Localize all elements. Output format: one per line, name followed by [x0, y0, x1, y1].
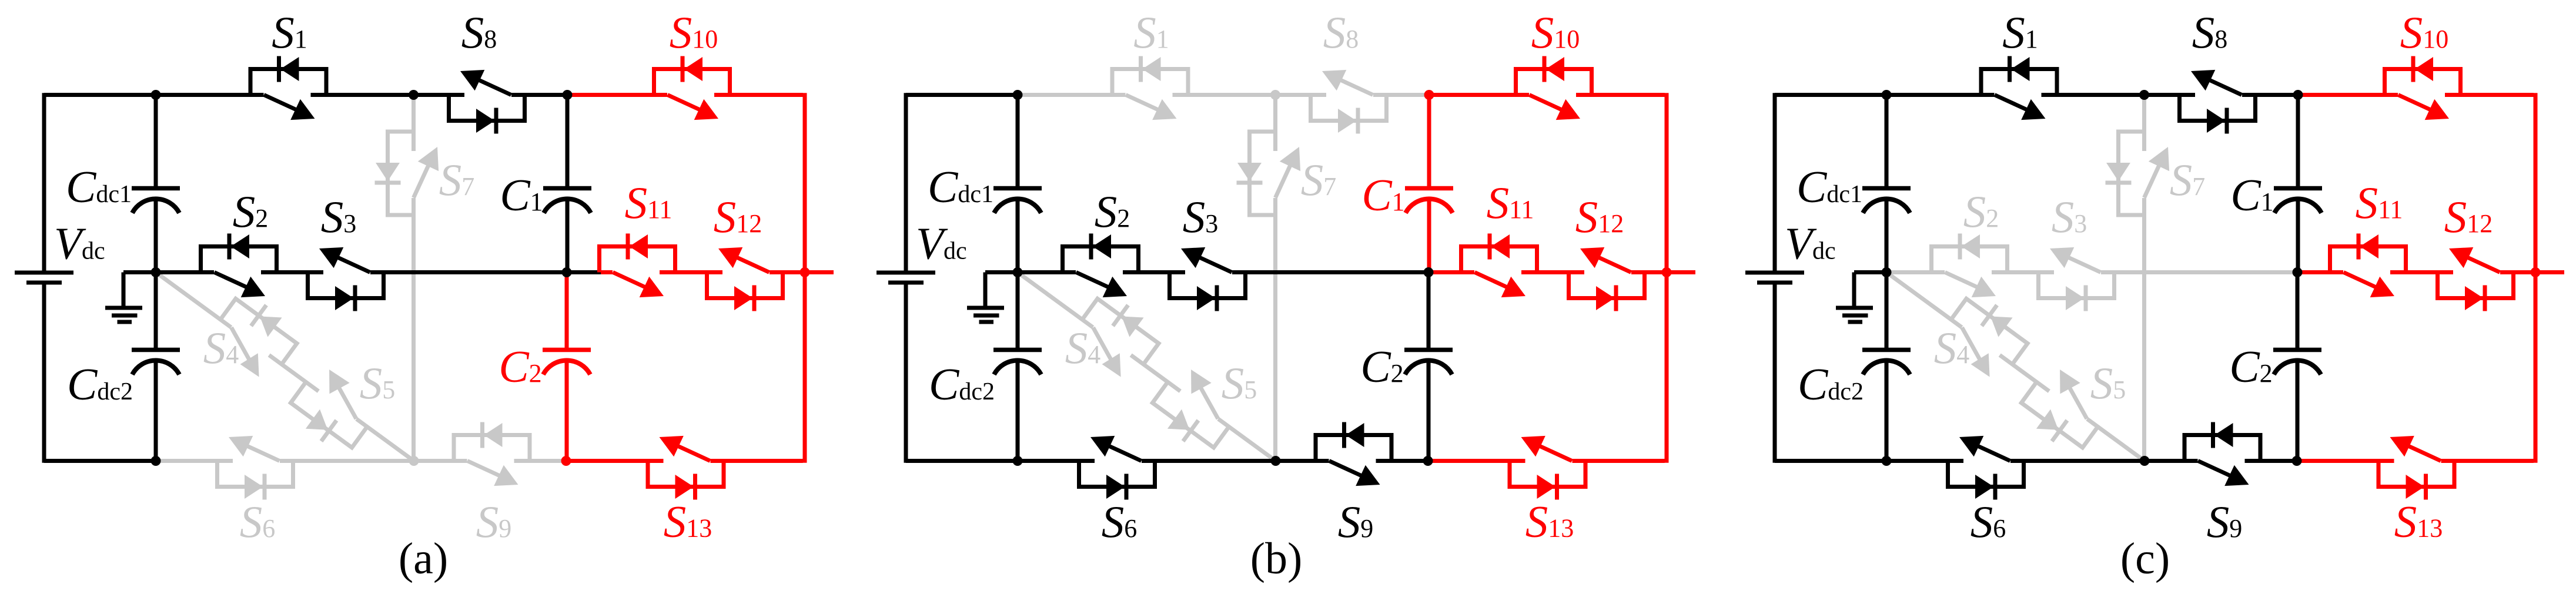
- wire left rail upper: [42, 93, 46, 271]
- switch S8: [1311, 70, 1387, 134]
- ground symbol: [122, 273, 126, 307]
- svg-text:S11: S11: [625, 177, 673, 228]
- svg-text:C1: C1: [500, 170, 543, 220]
- voltage source Vdc battery: [876, 271, 935, 275]
- wire C1 column: [566, 95, 570, 189]
- node top rail / Cdc1 junction: [151, 90, 161, 100]
- switch S13: [2378, 436, 2454, 500]
- switch S6: [1948, 436, 2024, 500]
- switch S2: [1063, 234, 1139, 298]
- svg-text:S8: S8: [1323, 7, 1359, 58]
- ground symbol: [1852, 273, 1856, 307]
- wire bottom rail left: [906, 459, 1018, 463]
- svg-text:S12: S12: [2444, 192, 2493, 242]
- svg-text:S11: S11: [2356, 177, 2403, 228]
- svg-text:C1: C1: [1361, 170, 1404, 220]
- switch S10: [654, 56, 730, 120]
- wire output stub: [2535, 270, 2564, 274]
- capacitor Cdc1: [993, 186, 1042, 191]
- switch S1: [1112, 56, 1188, 120]
- wire mid rail stub right of C node: [2298, 270, 2331, 274]
- switch S12: [1569, 247, 1645, 311]
- svg-text:S11: S11: [1487, 177, 1534, 228]
- svg-text:(a): (a): [399, 534, 448, 583]
- svg-text:S1: S1: [1133, 7, 1169, 58]
- svg-text:S8: S8: [2192, 7, 2228, 58]
- switch S10: [2385, 56, 2461, 120]
- switch S3: [2039, 247, 2115, 311]
- wire Cdc column: [154, 95, 158, 189]
- switch S6: [1079, 436, 1155, 500]
- svg-text:S9: S9: [1338, 496, 1374, 547]
- wire bottom rail S6 section: [156, 459, 414, 463]
- capacitor C1: [1405, 186, 1453, 191]
- wire mid rail S2-S3 section: [156, 270, 567, 274]
- wire top rail left: [44, 93, 156, 97]
- node bottom rail / C2 junction: [2292, 456, 2302, 466]
- ground symbol: [983, 273, 988, 307]
- node top rail / C1 junction: [1424, 90, 1434, 100]
- switch S3: [1170, 247, 1246, 311]
- wire top rail S1-S8 section: [156, 93, 567, 97]
- switch S8: [2180, 70, 2256, 134]
- switch S6: [218, 436, 293, 500]
- node top rail / S7 junction: [409, 90, 419, 100]
- switch S1: [1981, 56, 2057, 120]
- node top rail / S7 junction: [1270, 90, 1280, 100]
- switch S4: [1073, 288, 1166, 377]
- node top rail / Cdc1 junction: [1882, 90, 1892, 100]
- svg-text:S13: S13: [664, 496, 712, 547]
- wire left rail upper: [904, 93, 908, 271]
- svg-text:S7: S7: [1301, 155, 1337, 205]
- wire C2 column: [1427, 273, 1431, 350]
- svg-text:C2: C2: [499, 341, 541, 392]
- node top rail / S7 junction: [2139, 90, 2149, 100]
- wire mid rail ground stub: [1854, 270, 1886, 274]
- wire mid rail stub right of C node: [1429, 270, 1463, 274]
- wire Cdc column: [1885, 95, 1889, 189]
- svg-text:Cdc1: Cdc1: [66, 162, 132, 212]
- switch S9: [1316, 422, 1391, 486]
- wire mid rail ground stub: [123, 270, 156, 274]
- wire output stub: [1667, 270, 1695, 274]
- wire bottom rail S13 section: [566, 459, 803, 463]
- wire mid rail stub right of C node: [567, 270, 601, 274]
- wire left rail upper: [1773, 93, 1777, 271]
- switch S1: [250, 56, 326, 120]
- svg-text:Vdc: Vdc: [916, 219, 967, 269]
- node top rail / Cdc1 junction: [1013, 90, 1023, 100]
- wire mid rail S2-S3 section: [1018, 270, 1429, 274]
- svg-text:C1: C1: [2230, 170, 2273, 220]
- node output terminal: [1662, 267, 1672, 277]
- wire C1 column: [1427, 95, 1431, 189]
- svg-text:S8: S8: [461, 7, 497, 58]
- svg-text:S5: S5: [1222, 358, 1257, 408]
- switch S4 blade arrowhead: [1102, 353, 1121, 377]
- svg-text:(b): (b): [1250, 534, 1303, 583]
- wire output stub: [805, 270, 834, 274]
- svg-text:S12: S12: [714, 192, 762, 242]
- wire bottom rail S9 section: [1276, 459, 1428, 463]
- capacitor Cdc1: [132, 186, 180, 191]
- switch S5: [1145, 362, 1243, 458]
- node bottom rail / diagonal-S7 junction: [409, 456, 419, 466]
- svg-text:S3: S3: [2052, 192, 2087, 242]
- wire mid rail S11-S12 section: [2331, 270, 2535, 274]
- svg-text:Cdc1: Cdc1: [1796, 162, 1862, 212]
- svg-text:S2: S2: [1963, 186, 1999, 237]
- capacitor Cdc1: [1862, 186, 1911, 191]
- wire bottom rail S13 section: [2297, 459, 2534, 463]
- capacitor C2: [2273, 348, 2321, 352]
- node bottom rail / Cdc2 junction: [151, 456, 161, 466]
- node output terminal: [2531, 267, 2541, 277]
- capacitor C1: [543, 186, 591, 191]
- svg-text:S7: S7: [2170, 155, 2206, 205]
- switch S4: [1942, 288, 2035, 377]
- wire S7 branch vertical: [1273, 95, 1277, 461]
- svg-text:S6: S6: [1102, 496, 1138, 547]
- wire right rail: [2534, 93, 2538, 463]
- wire C2 column: [2296, 273, 2300, 350]
- capacitor C2: [543, 348, 591, 352]
- wire mid rail S2-S3 section: [1886, 270, 2298, 274]
- svg-text:Cdc2: Cdc2: [1798, 359, 1864, 409]
- node top rail / C1 junction: [563, 90, 573, 100]
- wire top rail right (S10): [1429, 93, 1665, 97]
- switch S11: [600, 234, 675, 298]
- svg-text:S1: S1: [272, 7, 307, 58]
- wire bottom rail S6 section: [1886, 459, 2145, 463]
- node output terminal: [800, 267, 810, 277]
- svg-text:S9: S9: [2207, 496, 2243, 547]
- node bottom rail / Cdc2 junction: [1882, 456, 1892, 466]
- svg-text:Cdc2: Cdc2: [929, 359, 995, 409]
- svg-text:S5: S5: [360, 358, 396, 408]
- wire bottom rail S13 section: [1428, 459, 1665, 463]
- switch S5: [2013, 362, 2112, 458]
- wire S7 branch vertical: [412, 95, 416, 461]
- switch S7: [2106, 132, 2170, 215]
- svg-text:Cdc2: Cdc2: [67, 359, 133, 409]
- switch S12: [707, 247, 783, 311]
- switch S9: [2184, 422, 2260, 486]
- wire top rail S1-S8 section: [1018, 93, 1429, 97]
- svg-text:S13: S13: [2394, 496, 2443, 547]
- svg-text:C2: C2: [2229, 341, 2272, 392]
- switch S11: [1461, 234, 1537, 298]
- node mid rail / C1-C2 junction: [1424, 267, 1434, 277]
- node mid rail / ground junction: [1882, 267, 1892, 277]
- svg-text:S7: S7: [439, 155, 475, 205]
- wire mid rail ground stub: [985, 270, 1018, 274]
- node mid rail / C1-C2 junction: [562, 267, 572, 277]
- switch S5: [283, 362, 382, 458]
- wire top rail left: [906, 93, 1018, 97]
- svg-text:S12: S12: [1575, 192, 1624, 242]
- svg-text:S10: S10: [670, 7, 718, 58]
- wire Cdc column: [1016, 95, 1020, 189]
- wire mid rail S11-S12 section: [1463, 270, 1667, 274]
- svg-text:S10: S10: [2400, 7, 2449, 58]
- switch S12: [2438, 247, 2514, 311]
- switch S9: [454, 422, 530, 486]
- switch S4 blade arrowhead: [240, 353, 259, 377]
- wire diagonal branch: [1886, 273, 2145, 461]
- capacitor C2: [1404, 348, 1453, 352]
- wire top rail right (S10): [567, 93, 803, 97]
- wire right rail: [1665, 93, 1669, 463]
- switch S7: [1237, 132, 1301, 215]
- node mid rail / ground junction: [151, 267, 161, 277]
- switch S2: [201, 234, 277, 298]
- node mid rail / ground junction: [1013, 267, 1023, 277]
- wire S7 branch vertical: [2142, 95, 2146, 461]
- wire top rail S1-S8 section: [1886, 93, 2298, 97]
- node bottom rail / Cdc2 junction: [1013, 456, 1023, 466]
- voltage source Vdc battery: [15, 271, 73, 275]
- svg-text:S3: S3: [321, 192, 357, 242]
- svg-text:Vdc: Vdc: [54, 219, 105, 269]
- svg-text:S13: S13: [1525, 496, 1574, 547]
- svg-text:S3: S3: [1183, 192, 1219, 242]
- svg-text:(c): (c): [2120, 534, 2170, 583]
- wire bottom rail S9 section: [2145, 459, 2297, 463]
- node bottom rail / C2 junction: [1423, 456, 1433, 466]
- wire C2 column: [565, 273, 569, 350]
- node top rail / C1 junction: [2293, 90, 2303, 100]
- switch S4: [212, 288, 305, 377]
- wire top rail right (S10): [2298, 93, 2534, 97]
- wire left rail lower: [42, 284, 46, 463]
- wire C1 column: [2296, 95, 2300, 189]
- switch S2: [1932, 234, 2008, 298]
- switch S13: [648, 436, 724, 500]
- switch S10: [1516, 56, 1592, 120]
- wire diagonal branch: [156, 273, 414, 461]
- capacitor C1: [2274, 186, 2322, 191]
- switch S11: [2330, 234, 2406, 298]
- capacitor Cdc2: [993, 348, 1042, 352]
- svg-text:S5: S5: [2090, 358, 2126, 408]
- node mid rail / C1-C2 junction: [2293, 267, 2303, 277]
- switch S13: [1510, 436, 1585, 500]
- switch S3: [308, 247, 384, 311]
- wire bottom rail left: [44, 459, 156, 463]
- wire top rail left: [1775, 93, 1886, 97]
- svg-text:S10: S10: [1531, 7, 1580, 58]
- capacitor Cdc2: [132, 348, 180, 352]
- svg-text:C2: C2: [1360, 341, 1403, 392]
- wire diagonal branch: [1018, 273, 1276, 461]
- svg-text:S2: S2: [1095, 186, 1130, 237]
- node bottom rail / diagonal-S7 junction: [2140, 456, 2150, 466]
- switch S4 blade arrowhead: [1971, 353, 1990, 377]
- node bottom rail / C2 junction: [561, 456, 571, 466]
- svg-text:S2: S2: [233, 186, 269, 237]
- wire bottom rail left: [1775, 459, 1886, 463]
- svg-text:S6: S6: [240, 496, 276, 547]
- wire bottom rail S9 section: [414, 459, 566, 463]
- switch S7: [375, 132, 439, 215]
- switch S8: [449, 70, 525, 134]
- wire left rail lower: [904, 284, 908, 463]
- svg-text:Vdc: Vdc: [1785, 219, 1836, 269]
- wire bottom rail S6 section: [1018, 459, 1276, 463]
- wire right rail: [803, 93, 807, 463]
- node bottom rail / diagonal-S7 junction: [1271, 456, 1281, 466]
- svg-text:Cdc1: Cdc1: [928, 162, 993, 212]
- svg-text:S1: S1: [2002, 7, 2038, 58]
- voltage source Vdc battery: [1745, 271, 1804, 275]
- svg-text:S9: S9: [476, 496, 512, 547]
- wire left rail lower: [1773, 284, 1777, 463]
- wire mid rail S11-S12 section: [601, 270, 805, 274]
- capacitor Cdc2: [1862, 348, 1911, 352]
- svg-text:S6: S6: [1971, 496, 2006, 547]
